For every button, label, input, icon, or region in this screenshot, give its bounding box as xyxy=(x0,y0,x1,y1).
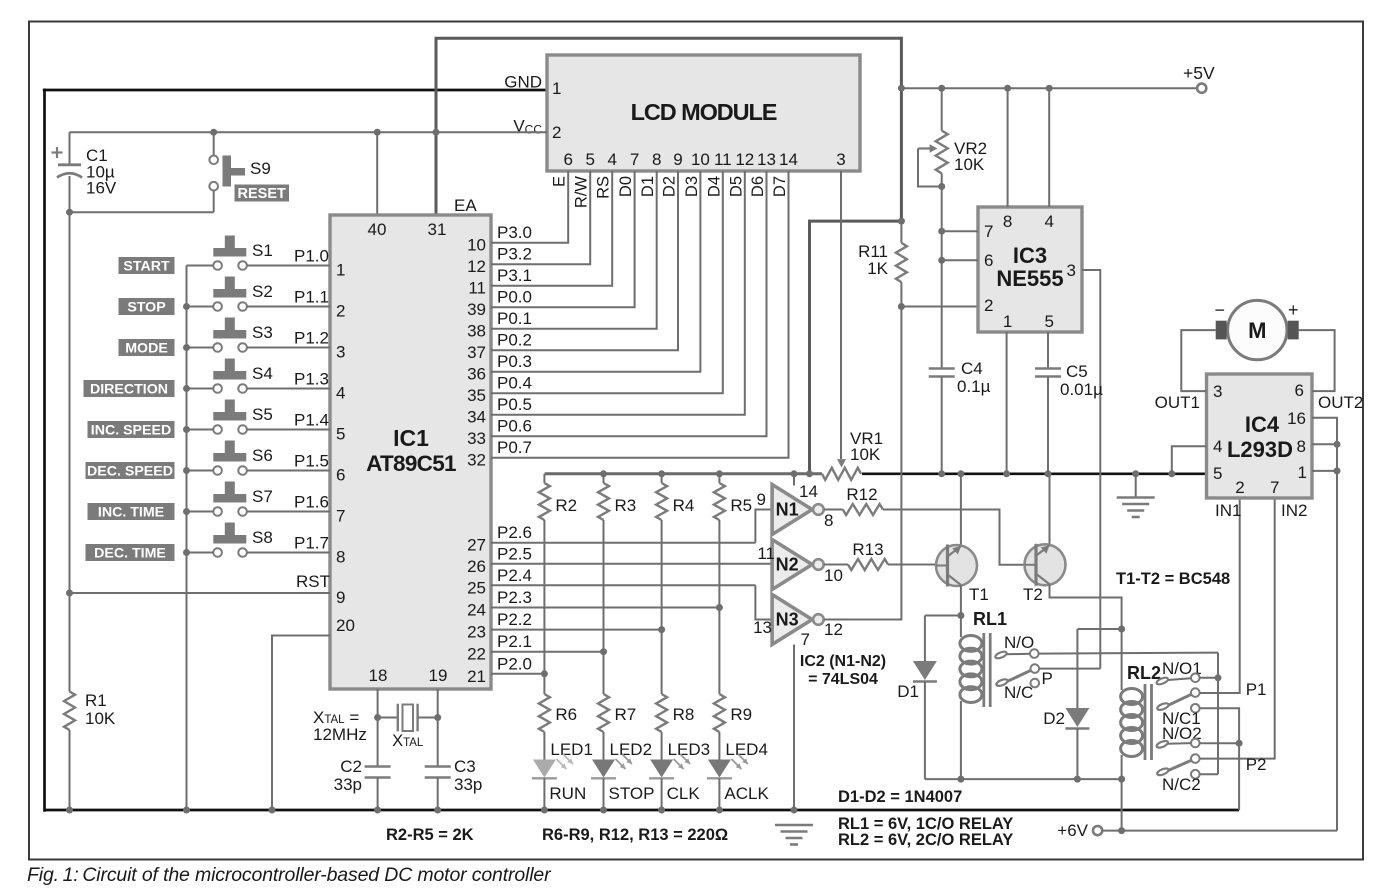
svg-text:D1-D2 = 1N4007: D1-D2 = 1N4007 xyxy=(838,788,962,806)
wire IC3 pin3 xyxy=(1082,270,1100,669)
svg-text:R13: R13 xyxy=(852,540,883,559)
junction xyxy=(183,549,190,556)
svg-text:L293D: L293D xyxy=(1227,437,1293,462)
svg-text:37: 37 xyxy=(467,343,486,362)
svg-text:40: 40 xyxy=(368,220,387,239)
wire P2.6 to N1 xyxy=(755,510,772,543)
svg-text:8: 8 xyxy=(1003,212,1012,231)
VR1 wiper arrow xyxy=(837,459,846,467)
wire VR2 to C4 xyxy=(941,187,943,368)
svg-text:39: 39 xyxy=(467,300,486,319)
svg-text:4: 4 xyxy=(1044,212,1053,231)
junction xyxy=(1132,470,1139,477)
junction xyxy=(1003,470,1010,477)
RL2 core xyxy=(1144,684,1147,760)
wire RL1 coil bottom xyxy=(960,701,962,779)
svg-text:27: 27 xyxy=(467,536,486,555)
IC4 box xyxy=(1207,374,1313,498)
svg-text:R/W: R/W xyxy=(573,176,591,209)
RL2 pole P2 xyxy=(1156,767,1169,776)
svg-text:N/O: N/O xyxy=(1004,633,1034,652)
junction xyxy=(938,470,945,477)
svg-text:38: 38 xyxy=(467,322,486,341)
badge INC. SPEED xyxy=(88,421,175,438)
wire P3.1 to LCD xyxy=(491,171,612,286)
RL1 core xyxy=(982,633,985,707)
svg-text:16V: 16V xyxy=(86,179,117,198)
wire IC3 pin7 stub xyxy=(942,230,978,232)
svg-text:P2.0: P2.0 xyxy=(497,654,532,673)
switch S8 xyxy=(213,535,246,544)
wire P2.6 xyxy=(491,542,755,544)
resistor R1 xyxy=(64,692,75,731)
wire P0.3 to LCD xyxy=(491,171,700,372)
wire LCD pin3 to VR1 wiper xyxy=(840,171,842,459)
RL2 contact N/O2 xyxy=(1156,740,1169,749)
svg-text:0.01µ: 0.01µ xyxy=(1060,380,1103,399)
svg-text:D6: D6 xyxy=(749,176,767,197)
svg-text:START: START xyxy=(123,259,170,275)
switch S9 xyxy=(213,132,215,155)
svg-text:CLK: CLK xyxy=(667,784,701,803)
svg-text:S5: S5 xyxy=(252,405,273,424)
ground bus top to LCD pin1 xyxy=(43,89,547,92)
svg-text:R5: R5 xyxy=(730,496,752,515)
wire IC3 pin4 xyxy=(1048,88,1050,207)
svg-text:M: M xyxy=(1248,318,1266,343)
svg-text:8: 8 xyxy=(824,511,833,530)
ground xyxy=(1117,496,1155,499)
svg-text:RESET: RESET xyxy=(238,186,286,202)
junction xyxy=(1004,85,1011,92)
svg-text:= 74LS04: = 74LS04 xyxy=(808,671,878,688)
junction xyxy=(541,807,548,814)
junction xyxy=(716,604,723,611)
svg-text:12: 12 xyxy=(467,257,486,276)
junction xyxy=(806,470,813,477)
svg-text:5: 5 xyxy=(336,425,345,444)
svg-text:P3.0: P3.0 xyxy=(497,223,532,242)
svg-text:4: 4 xyxy=(607,150,616,169)
svg-text:T1-T2 = BC548: T1-T2 = BC548 xyxy=(1116,570,1230,588)
svg-text:C2: C2 xyxy=(340,757,362,776)
svg-text:C4: C4 xyxy=(961,359,983,378)
svg-text:LED2: LED2 xyxy=(610,740,653,759)
wire P0.0 to LCD xyxy=(491,171,635,307)
ground bus left vertical xyxy=(43,89,46,812)
wire relay bottoms xyxy=(925,778,1122,780)
svg-text:9: 9 xyxy=(336,588,345,607)
svg-text:19: 19 xyxy=(429,666,448,685)
svg-text:IC3: IC3 xyxy=(1013,243,1047,268)
wire T2 to D2 xyxy=(1077,628,1121,630)
svg-text:P3.2: P3.2 xyxy=(497,245,532,264)
svg-text:2: 2 xyxy=(1235,478,1244,497)
IC3 box xyxy=(978,207,1082,332)
RL1 contact N/C xyxy=(1031,679,1040,688)
svg-text:RL2: RL2 xyxy=(1127,663,1161,683)
potentiometer VR1 xyxy=(822,468,861,480)
switch S6 xyxy=(213,453,246,462)
svg-text:D1: D1 xyxy=(639,176,657,197)
wire N1 out xyxy=(824,509,843,511)
svg-text:10K: 10K xyxy=(85,709,116,728)
junction xyxy=(210,129,217,136)
resistor R9 xyxy=(718,608,720,695)
svg-text:P0.6: P0.6 xyxy=(497,417,532,436)
resistor R2 xyxy=(543,474,545,483)
wire VR2 top xyxy=(941,88,943,130)
relay coil RL1 xyxy=(960,636,982,652)
wire +6V xyxy=(1102,830,1337,832)
badge MODE xyxy=(119,339,175,356)
svg-text:DEC. TIME: DEC. TIME xyxy=(94,546,166,562)
junction xyxy=(1045,470,1052,477)
svg-text:P0.4: P0.4 xyxy=(497,374,532,393)
badge DIRECTION xyxy=(84,380,175,397)
wire P0.4 to LCD xyxy=(491,171,723,393)
junction xyxy=(658,807,665,814)
svg-text:10: 10 xyxy=(824,566,843,585)
svg-text:0.1µ: 0.1µ xyxy=(957,377,991,396)
diode D1 xyxy=(924,616,926,662)
svg-text:7: 7 xyxy=(984,222,993,241)
svg-text:Fig. 1: Circuit of the microco: Fig. 1: Circuit of the microcontroller-b… xyxy=(27,864,552,886)
resistor R6 xyxy=(543,674,545,694)
svg-text:P: P xyxy=(1042,669,1053,688)
junction xyxy=(66,209,73,216)
svg-text:25: 25 xyxy=(467,578,486,597)
wire top right vertical xyxy=(900,37,903,221)
wire RL1 NO chain xyxy=(1217,653,1219,775)
svg-text:1: 1 xyxy=(1003,312,1012,331)
svg-text:IN2: IN2 xyxy=(1281,501,1307,520)
svg-text:6: 6 xyxy=(984,251,993,270)
inverter N2 xyxy=(772,540,812,590)
svg-text:OUT2: OUT2 xyxy=(1318,393,1363,412)
svg-text:33p: 33p xyxy=(334,775,362,794)
badge RESET xyxy=(235,185,290,202)
svg-text:EA: EA xyxy=(454,196,477,215)
wire T1 to D1 xyxy=(925,615,961,617)
svg-text:R2-R5 = 2K: R2-R5 = 2K xyxy=(386,826,474,844)
svg-text:D2: D2 xyxy=(661,176,679,197)
+5V mid bus xyxy=(862,472,1207,475)
junction xyxy=(600,807,607,814)
svg-text:18: 18 xyxy=(369,666,388,685)
svg-text:24: 24 xyxy=(467,601,486,620)
svg-text:P0.7: P0.7 xyxy=(497,438,532,457)
svg-text:3: 3 xyxy=(336,343,345,362)
svg-text:6: 6 xyxy=(563,150,572,169)
wire jog vertical to bus xyxy=(808,220,811,474)
wire R1 to bus xyxy=(69,730,71,810)
svg-text:P3.1: P3.1 xyxy=(497,266,532,285)
junction xyxy=(183,385,190,392)
inverter N1 xyxy=(772,485,812,535)
junction xyxy=(1046,85,1053,92)
badge DEC. SPEED xyxy=(86,462,175,479)
badge DEC. TIME xyxy=(86,544,175,561)
inverter N3 xyxy=(772,595,812,645)
svg-text:S1: S1 xyxy=(252,241,273,260)
junction xyxy=(374,129,381,136)
svg-text:7: 7 xyxy=(1270,478,1279,497)
svg-text:P1.1: P1.1 xyxy=(294,288,329,307)
svg-text:9: 9 xyxy=(757,490,766,509)
svg-text:N2: N2 xyxy=(776,555,799,575)
junction xyxy=(1118,776,1125,783)
wire RST xyxy=(70,592,331,594)
svg-text:OUT1: OUT1 xyxy=(1155,393,1200,412)
wire pin16 xyxy=(1312,418,1337,831)
wire pin8 stub xyxy=(1312,443,1337,445)
junction xyxy=(1334,441,1341,448)
svg-text:P1.2: P1.2 xyxy=(294,329,329,348)
junction xyxy=(541,670,548,677)
svg-text:D0: D0 xyxy=(617,176,635,197)
junction xyxy=(1236,740,1243,747)
junction xyxy=(957,470,964,477)
junction xyxy=(938,228,945,235)
wire R12 to T2 base xyxy=(883,510,1036,565)
svg-text:P2.5: P2.5 xyxy=(497,544,532,563)
svg-text:10K: 10K xyxy=(954,155,985,174)
svg-text:R7: R7 xyxy=(615,705,637,724)
switch S3 xyxy=(213,330,246,339)
svg-text:10: 10 xyxy=(691,150,710,169)
LCD module box xyxy=(547,55,860,171)
svg-text:T2: T2 xyxy=(1023,585,1043,604)
svg-text:34: 34 xyxy=(467,408,486,427)
svg-text:6: 6 xyxy=(1295,381,1304,400)
svg-text:S3: S3 xyxy=(252,323,273,342)
wire pin20 xyxy=(272,636,330,811)
svg-text:22: 22 xyxy=(467,645,486,664)
svg-text:3: 3 xyxy=(1067,261,1076,280)
wire IC3 pin5 to C5 xyxy=(1047,332,1049,368)
svg-text:1: 1 xyxy=(336,261,345,280)
wire to bottom bus xyxy=(1238,743,1240,810)
junction xyxy=(66,590,73,597)
wire N/C2 xyxy=(1200,773,1218,775)
svg-text:LED3: LED3 xyxy=(668,740,711,759)
potentiometer VR2 xyxy=(936,131,948,174)
LED LED3 xyxy=(650,760,673,778)
wire P2 to IN2 xyxy=(1200,499,1275,759)
svg-text:R12: R12 xyxy=(846,485,877,504)
svg-text:D1: D1 xyxy=(897,682,919,701)
junction xyxy=(600,470,607,477)
svg-text:P2: P2 xyxy=(1246,755,1267,774)
svg-text:R2: R2 xyxy=(555,496,577,515)
svg-text:1: 1 xyxy=(552,79,561,98)
svg-text:33: 33 xyxy=(467,429,486,448)
svg-text:P1.3: P1.3 xyxy=(294,370,329,389)
svg-text:35: 35 xyxy=(467,386,486,405)
wire pin40 xyxy=(376,132,378,215)
svg-text:S2: S2 xyxy=(252,282,273,301)
svg-text:P2.3: P2.3 xyxy=(497,588,532,607)
junction xyxy=(1118,626,1125,633)
junction xyxy=(66,807,73,814)
switch S5 xyxy=(213,412,246,421)
svg-text:14: 14 xyxy=(779,150,798,169)
svg-text:3: 3 xyxy=(1213,382,1222,401)
wire R11 top xyxy=(900,221,902,243)
LED LED4 xyxy=(708,760,731,778)
wire P2.4 to N3 xyxy=(755,585,772,619)
svg-text:P1.0: P1.0 xyxy=(294,247,329,266)
wire IC3 pin8 xyxy=(1007,88,1009,207)
svg-text:D4: D4 xyxy=(705,176,723,197)
svg-text:13: 13 xyxy=(753,618,772,637)
svg-text:E: E xyxy=(551,176,569,187)
wire P3.2 to LCD xyxy=(491,171,590,264)
wire IC3 pin1 xyxy=(1006,332,1008,474)
svg-text:P0.0: P0.0 xyxy=(497,288,532,307)
wire N2 out xyxy=(824,564,848,566)
switch S1 xyxy=(213,248,246,257)
junction xyxy=(434,714,441,721)
svg-text:8: 8 xyxy=(1297,437,1306,456)
switch S4 xyxy=(213,371,246,380)
svg-text:S7: S7 xyxy=(252,487,273,506)
wire P2.5 xyxy=(491,563,773,565)
junction xyxy=(433,129,440,136)
svg-text:S8: S8 xyxy=(252,528,273,547)
rail above R2-R5 xyxy=(545,472,822,475)
wire P2.0 xyxy=(491,673,544,675)
wire N3 pin7 to ground xyxy=(793,645,795,811)
wire P3.0 to LCD xyxy=(491,171,568,243)
junction xyxy=(1215,674,1222,681)
svg-text:N/C2: N/C2 xyxy=(1162,775,1201,794)
svg-text:N/C: N/C xyxy=(1004,683,1033,702)
capacitor C3 xyxy=(425,765,451,768)
wire C1 to R1 xyxy=(69,212,71,691)
junction xyxy=(434,807,441,814)
svg-text:D2: D2 xyxy=(1043,709,1065,728)
svg-text:DIRECTION: DIRECTION xyxy=(90,382,168,398)
+6V terminal xyxy=(1093,826,1102,835)
svg-text:31: 31 xyxy=(428,220,447,239)
wire T2 emitter xyxy=(1050,585,1122,630)
junction xyxy=(898,303,905,310)
wire ground stub xyxy=(1135,474,1137,497)
wire N/O2 xyxy=(1200,742,1240,744)
LED LED2 xyxy=(592,760,615,778)
svg-text:R1: R1 xyxy=(85,691,107,710)
svg-text:RL2 = 6V, 2C/O RELAY: RL2 = 6V, 2C/O RELAY xyxy=(838,831,1013,849)
svg-text:10K: 10K xyxy=(850,445,881,464)
resistor R11 xyxy=(896,243,907,282)
svg-text:P1.7: P1.7 xyxy=(294,534,329,553)
relay coil RL2 xyxy=(1121,689,1143,705)
resistor R4 xyxy=(661,474,663,483)
badge STOP xyxy=(119,298,175,315)
svg-text:P0.3: P0.3 xyxy=(497,352,532,371)
svg-text:2: 2 xyxy=(336,302,345,321)
RL2 contact N/C2 xyxy=(1191,770,1200,779)
junction xyxy=(791,807,798,814)
svg-text:20: 20 xyxy=(336,616,355,635)
junction xyxy=(1074,776,1081,783)
capacitor C5 xyxy=(1035,367,1061,370)
wire IC3 pin6 stub xyxy=(942,259,978,261)
svg-text:3: 3 xyxy=(836,150,845,169)
diode D2 xyxy=(1076,629,1078,708)
wire pin1 stub xyxy=(1312,470,1337,472)
junction xyxy=(957,776,964,783)
resistor R12 xyxy=(843,504,883,515)
capacitor C1 xyxy=(69,132,71,164)
svg-text:11: 11 xyxy=(714,150,732,169)
svg-text:N1: N1 xyxy=(776,500,799,520)
junction xyxy=(898,218,905,225)
motor M xyxy=(1228,300,1287,359)
switch S2 xyxy=(213,289,246,298)
svg-text:6: 6 xyxy=(336,466,345,485)
junction xyxy=(269,807,276,814)
transistor T1 xyxy=(936,545,977,586)
svg-text:4: 4 xyxy=(336,384,345,403)
svg-text:5: 5 xyxy=(1213,464,1222,483)
svg-text:R4: R4 xyxy=(673,496,695,515)
resistor R5 xyxy=(718,474,720,483)
svg-text:S9: S9 xyxy=(250,159,271,178)
svg-text:D7: D7 xyxy=(771,176,789,197)
svg-text:P0.1: P0.1 xyxy=(497,309,532,328)
wire P2.2 xyxy=(491,629,662,631)
junction xyxy=(938,183,945,190)
RL2 contact N/O1 xyxy=(1156,676,1169,685)
junction xyxy=(374,714,381,721)
svg-text:LED4: LED4 xyxy=(725,740,768,759)
wire N1 pin14 xyxy=(793,474,795,486)
svg-text:RL1: RL1 xyxy=(973,609,1007,629)
junction xyxy=(658,626,665,633)
svg-text:−: − xyxy=(1215,300,1226,320)
svg-text:12: 12 xyxy=(824,620,843,639)
svg-text:P1: P1 xyxy=(1246,680,1267,699)
wire RL2 N/O1 xyxy=(1200,677,1218,679)
resistor R3 xyxy=(603,474,605,483)
svg-text:DEC. SPEED: DEC. SPEED xyxy=(87,464,173,480)
wire to +6V xyxy=(1121,779,1123,831)
svg-text:P0.5: P0.5 xyxy=(497,395,532,414)
RL2 pole P1 xyxy=(1156,702,1169,711)
wire OUT2 xyxy=(1299,330,1335,391)
junction xyxy=(183,426,190,433)
junction xyxy=(938,257,945,264)
svg-text:21: 21 xyxy=(467,667,486,686)
wire jog horizontal xyxy=(810,220,903,223)
svg-text:LCD MODULE: LCD MODULE xyxy=(631,99,777,125)
svg-text:1: 1 xyxy=(1298,463,1307,482)
RL1 pole P xyxy=(995,678,1008,687)
svg-text:C3: C3 xyxy=(454,757,476,776)
wire T2 collector xyxy=(1049,474,1051,545)
svg-text:IC1: IC1 xyxy=(393,425,429,451)
svg-text:LED1: LED1 xyxy=(550,740,593,759)
svg-text:P2.6: P2.6 xyxy=(497,523,532,542)
wire P2.1 xyxy=(491,651,604,653)
RL1 contact N/O xyxy=(994,650,1007,659)
svg-text:INC. SPEED: INC. SPEED xyxy=(91,423,171,439)
svg-text:+: + xyxy=(1288,300,1299,320)
junction xyxy=(716,807,723,814)
